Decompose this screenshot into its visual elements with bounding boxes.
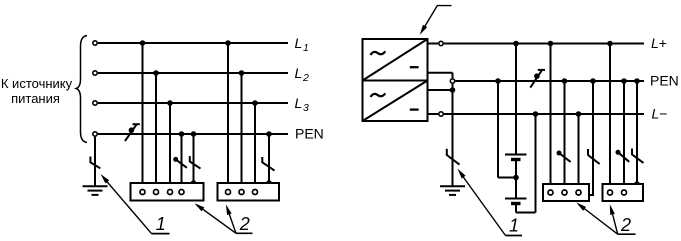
svg-text:2: 2: [302, 72, 309, 84]
wire drop PEN to load3: [564, 81, 566, 189]
load box 2: [218, 183, 280, 201]
svg-text:L+: L+: [651, 35, 667, 51]
junction case load2: [266, 180, 272, 186]
junction L1/drop: [140, 40, 146, 46]
callout 1 left arrowhead: [101, 174, 110, 184]
wire cell2 down: [515, 205, 517, 213]
junction L2/drop: [153, 70, 159, 76]
load2 terminal 1: [226, 190, 231, 195]
load3 terminal 2: [562, 190, 567, 195]
svg-text:PEN: PEN: [295, 126, 324, 142]
junction PEN/drop4: [179, 131, 185, 137]
link with dot on load3 PEN drop: [557, 151, 571, 162]
terminal circle L+: [439, 41, 443, 45]
callout 1 left underline: [152, 233, 170, 235]
battery GB1 cell2 plate long: [505, 198, 527, 200]
wire earthing conductor left: [94, 137, 96, 186]
svg-text:PEN: PEN: [650, 73, 679, 89]
load2 terminal 3: [253, 190, 258, 195]
svg-text:3: 3: [303, 102, 309, 114]
terminal circle PEN right: [450, 79, 454, 83]
converter leader arrowhead: [420, 25, 428, 35]
wire battery feed from L+: [515, 44, 517, 155]
wire drop L1 to load1: [142, 43, 144, 189]
callout 2 left underline: [236, 232, 253, 234]
ground right: [440, 186, 465, 195]
removable link on load2 case drop: [262, 157, 274, 171]
junction PEN/case3: [590, 78, 596, 84]
callout 2 right leader b: [611, 208, 618, 234]
wire PEN drop to load4 case: [636, 81, 638, 184]
wire drop L+ to load3: [550, 44, 552, 190]
battery GB1 cell1 plate short: [511, 158, 521, 161]
converter bottom diagonal: [363, 81, 428, 122]
wire drop L1 to load2: [227, 43, 229, 189]
converter top diagonal: [363, 39, 428, 81]
svg-text:К источнику: К источнику: [1, 76, 73, 91]
wire battery return to L-: [535, 114, 537, 213]
junction case load4: [634, 181, 640, 187]
converter divider: [363, 80, 428, 82]
battery GB1 cell2 plate short: [511, 202, 521, 205]
wire PEN left: [98, 133, 288, 135]
junction L+/battery: [513, 41, 519, 47]
load1 terminal 2: [154, 190, 159, 195]
wire L+: [444, 43, 644, 45]
wire drop L2 to load1: [155, 73, 157, 189]
callout 2 right arrowhead b: [610, 204, 615, 215]
callout 2 left arrowhead a: [194, 203, 204, 211]
load box 4: [603, 184, 644, 201]
wire PEN drop to load2 case: [268, 134, 270, 183]
wire PEN drop to load3 case: [589, 81, 593, 195]
load box 3: [543, 184, 589, 201]
wire drop L3 to load1: [169, 103, 171, 189]
removable link on load3 case drop: [588, 149, 600, 164]
wire drop L2 to load2: [241, 73, 243, 189]
junction L3/drop: [167, 100, 173, 106]
junction battery midpoint: [513, 175, 519, 181]
wire PEN to battery midpoint: [497, 81, 499, 178]
converter leader line: [422, 6, 452, 32]
wire PEN drop to load1 terminal: [181, 134, 183, 189]
junction PEN/load4: [621, 78, 627, 84]
PEN link symbol on PEN line (right): [530, 70, 545, 88]
wire L1: [98, 42, 288, 44]
wire drop L3 to load2: [254, 103, 256, 189]
removable link on PEN drop5: [190, 156, 201, 169]
terminal circle L2 source: [93, 71, 97, 75]
wire L-: [444, 113, 644, 115]
load4 terminal 1: [608, 190, 613, 195]
link with dot on load4 PEN drop: [616, 150, 630, 162]
callout 1 right underline: [506, 235, 523, 237]
svg-text:питания: питания: [11, 91, 60, 106]
load4 terminal 2: [622, 190, 627, 195]
load3 terminal 1: [548, 190, 553, 195]
battery GB1 cell1 plate long: [505, 154, 527, 156]
wire PEN right: [456, 80, 645, 82]
junction L1/drop load2: [225, 40, 231, 46]
svg-text:2: 2: [620, 215, 631, 235]
junction PEN/load3: [562, 78, 568, 84]
svg-text:L: L: [295, 65, 303, 81]
wire drop PEN to load4: [623, 81, 625, 189]
svg-text:L: L: [295, 35, 303, 51]
wire L3: [98, 102, 288, 104]
load1 terminal 4: [179, 190, 184, 195]
load box 1: [131, 183, 204, 201]
callout 2 left leader a: [197, 205, 236, 233]
brace to supply: [76, 36, 87, 143]
junction L-/load3: [576, 111, 582, 117]
callout 1 right arrowhead: [458, 169, 466, 179]
removable link on earthing conductor right: [447, 149, 460, 165]
load1 terminal 3: [168, 190, 173, 195]
link with dot on PEN drop4: [173, 157, 187, 168]
wire drop L+ to load4: [609, 44, 611, 190]
callout 2 right arrowhead a: [576, 202, 586, 210]
DC symbol bottom: [410, 108, 419, 110]
junction L+/load3: [548, 41, 554, 47]
wire PEN drop to load1 case: [193, 134, 195, 183]
junction case load1: [191, 180, 197, 186]
stub L- from converter: [428, 113, 439, 115]
DC symbol top: [410, 66, 419, 68]
junction L+/load4: [607, 41, 613, 47]
wire L2: [98, 72, 288, 74]
svg-text:2: 2: [239, 214, 250, 234]
wire drop L- to load3: [578, 114, 580, 189]
load1 terminal 1: [140, 190, 145, 195]
ground left: [83, 186, 108, 195]
terminal circle L-: [439, 112, 443, 116]
junction L3/drop load2: [252, 100, 258, 106]
terminal circle L3 source: [93, 101, 97, 105]
callout 2 left arrowhead b: [226, 204, 232, 215]
callout 1 right leader: [460, 173, 506, 236]
AC symbol bottom: [371, 93, 386, 97]
svg-text:L−: L−: [652, 106, 668, 122]
junction PEN/drop load2: [266, 131, 272, 137]
bus to PEN terminal upper: [452, 73, 454, 78]
callout 1 left leader: [103, 177, 152, 234]
stub mid-bottom from converter: [428, 89, 453, 91]
junction L2/drop load2: [239, 70, 245, 76]
junction L-/battery return: [533, 111, 539, 117]
load3 terminal 3: [576, 190, 581, 195]
junction PEN/battery mid: [495, 78, 501, 84]
AC symbol top: [371, 51, 386, 55]
wire earthing conductor right: [452, 90, 454, 186]
callout 2 left leader b: [227, 208, 236, 234]
terminal circle L1 source: [93, 41, 97, 45]
junction PEN/case4 top: [634, 78, 640, 84]
junction PEN/drop5: [191, 131, 197, 137]
load2 terminal 2: [239, 190, 244, 195]
svg-text:1: 1: [156, 214, 166, 234]
svg-text:1: 1: [509, 215, 519, 235]
wire cell1 to midpoint: [515, 161, 517, 199]
removable link on load4 case drop: [632, 149, 644, 163]
stub L+ from converter: [428, 43, 439, 45]
bus to PEN terminal lower: [452, 84, 454, 90]
converter U1 outline: [363, 39, 428, 121]
wire battery bottom horizontal: [516, 212, 536, 214]
terminal circle PEN source: [93, 132, 97, 136]
svg-text:1: 1: [303, 42, 309, 54]
PEN link symbol on PEN line (left): [125, 124, 140, 141]
junction bus/stub: [450, 87, 456, 93]
callout 2 right leader a: [579, 205, 618, 235]
callout 2 right underline: [618, 233, 636, 235]
svg-text:L: L: [295, 95, 303, 111]
stub mid-top from converter: [428, 72, 453, 74]
removable link on earthing conductor left: [90, 157, 100, 169]
wire battery midpoint to PEN drop: [498, 177, 516, 179]
